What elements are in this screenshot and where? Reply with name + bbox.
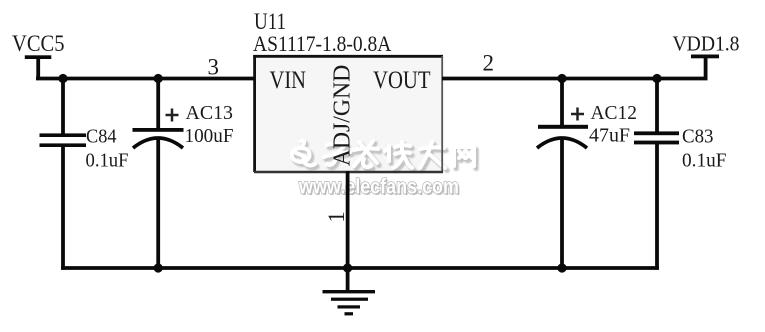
svg-text:AS1117-1.8-0.8A: AS1117-1.8-0.8A [253,31,392,56]
svg-text:VCC5: VCC5 [12,31,65,56]
svg-text:VOUT: VOUT [373,67,431,94]
svg-text:100uF: 100uF [185,125,234,147]
svg-text:VIN: VIN [270,67,307,94]
svg-text:0.1uF: 0.1uF [86,150,129,172]
svg-text:VDD1.8: VDD1.8 [673,32,740,56]
svg-text:C83: C83 [682,126,714,148]
svg-text:2: 2 [483,51,495,76]
svg-text:1: 1 [324,211,349,223]
svg-text:3: 3 [208,55,220,80]
svg-text:AC12: AC12 [591,102,638,124]
svg-text:47uF: 47uF [589,125,630,147]
svg-text:0.1uF: 0.1uF [682,150,727,172]
svg-text:www.elecfans.com: www.elecfans.com [298,175,459,199]
svg-text:C84: C84 [86,126,117,148]
svg-text:ADJ/GND: ADJ/GND [330,65,356,167]
svg-text:AC13: AC13 [186,102,234,124]
